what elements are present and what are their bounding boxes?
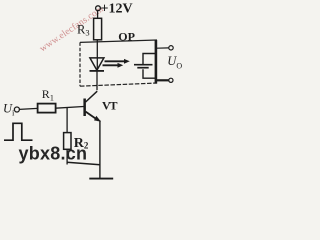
svg-text:ybx8.cn: ybx8.cn <box>19 144 88 164</box>
svg-text:OP: OP <box>118 29 135 43</box>
svg-text:+12V: +12V <box>101 2 133 17</box>
svg-text:VT: VT <box>102 99 117 113</box>
